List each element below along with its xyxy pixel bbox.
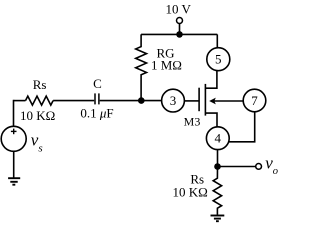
node circle 5 (drain) <box>207 48 230 71</box>
node circle 3 <box>162 89 185 112</box>
svg-text:0.1 μF: 0.1 μF <box>80 105 113 120</box>
svg-text:Rs: Rs <box>33 77 47 92</box>
wire: top rail from RG top to drain corner <box>141 33 217 35</box>
source vs circle <box>1 126 26 151</box>
svg-text:M3: M3 <box>184 115 201 129</box>
wire: junction to vo terminal <box>218 166 256 168</box>
source vs plus sign <box>11 130 17 132</box>
transistor M3: body arrowhead <box>209 98 216 105</box>
wire: resistor to capacitor <box>53 100 94 102</box>
ground (below load resistor) <box>211 215 225 217</box>
node: gate junction dot <box>138 97 145 104</box>
wire: junction to node circle 3 <box>141 100 161 102</box>
node circle 7 (body) <box>243 89 266 112</box>
resistor Rs 10 KΩ (load, vertical) <box>213 167 221 215</box>
svg-text:1 MΩ: 1 MΩ <box>151 58 182 73</box>
wire: capacitor to junction <box>100 100 142 102</box>
output terminal vo <box>256 164 262 170</box>
transistor M3: drain stub <box>205 71 217 88</box>
wire: main horizontal left rail <box>14 100 26 102</box>
svg-text:10 KΩ: 10 KΩ <box>20 108 55 123</box>
node circle 4 (source) <box>206 127 229 150</box>
svg-text:10 KΩ: 10 KΩ <box>173 184 208 199</box>
wire: node 3 to gate <box>184 100 199 102</box>
ground (below vs) <box>8 177 20 179</box>
transistor M3: body arrow line <box>214 100 244 102</box>
svg-text:10 V: 10 V <box>165 2 191 17</box>
svg-text:3: 3 <box>170 93 177 108</box>
resistor RG 1 MΩ (vertical) <box>136 34 147 100</box>
svg-text:C: C <box>93 76 102 91</box>
svg-text:7: 7 <box>251 93 258 108</box>
svg-text:4: 4 <box>215 131 222 146</box>
wire: main rail corner down to source vs <box>13 100 15 127</box>
wire: body node down and to source node <box>229 112 255 142</box>
resistor Rs 10 KΩ (source resistor, horizontal) <box>26 96 54 105</box>
node: output junction dot <box>214 163 221 170</box>
node: junction dot under 10V <box>176 31 183 38</box>
wire: corner down to collector circle 5 <box>216 34 218 48</box>
wire: 10V terminal drop <box>179 23 181 34</box>
wire: vs to ground <box>13 151 15 178</box>
wire: source node down to output junction <box>217 150 219 167</box>
svg-text:vo: vo <box>265 154 278 178</box>
svg-text:vs: vs <box>31 131 43 155</box>
capacitor C 0.1 uF <box>94 93 96 104</box>
svg-text:5: 5 <box>215 52 222 67</box>
transistor M3: source stub <box>205 113 217 127</box>
transistor M3: gate bar <box>198 88 200 112</box>
power terminal 10 V <box>177 18 183 24</box>
transistor M3: channel bar <box>204 84 206 116</box>
